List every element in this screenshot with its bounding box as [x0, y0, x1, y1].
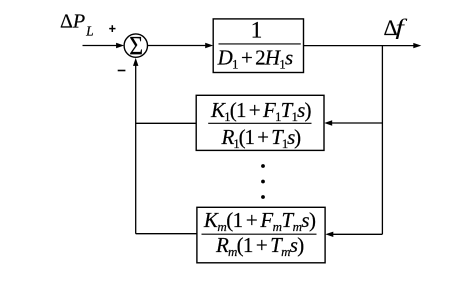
svg-text:R1(1+T1s): R1(1+T1s) — [221, 125, 302, 151]
wire block Gm output to left vertical feedback line — [136, 233, 197, 235]
wire feedback arrow into block Gm right side — [325, 232, 382, 237]
summing junction U1 (Σ) — [124, 33, 147, 61]
block G1: 1/(D1+2H1s) — [213, 17, 303, 72]
node label df (output Δf) — [384, 14, 408, 40]
block G2: K1(1+F1T1s)/R1(1+T1s) — [196, 95, 324, 151]
plus sign at summing junction — [109, 25, 115, 32]
minus sign at summing junction — [118, 70, 126, 72]
wire summing junction to block G1 — [148, 43, 214, 48]
wire block G2 output to left vertical feedback line — [136, 122, 197, 124]
dots ellipsis between feedback blocks — [261, 164, 265, 199]
svg-text:1: 1 — [251, 17, 263, 43]
wire left vertical feedback line with arrow into summing junction — [133, 58, 138, 234]
block Gm: Km(1+FmTms)/Rm(1+Tms) — [197, 207, 325, 262]
wire feedback arrow into block G2 right side — [324, 120, 382, 125]
node label dPL (input signal ΔP_L) — [60, 11, 94, 39]
wire branch vertical from output node — [381, 46, 383, 235]
wire output of G1 to output arrow — [304, 43, 422, 48]
svg-text:Σ: Σ — [129, 33, 143, 61]
wire input arrow into summing junction — [83, 43, 125, 48]
